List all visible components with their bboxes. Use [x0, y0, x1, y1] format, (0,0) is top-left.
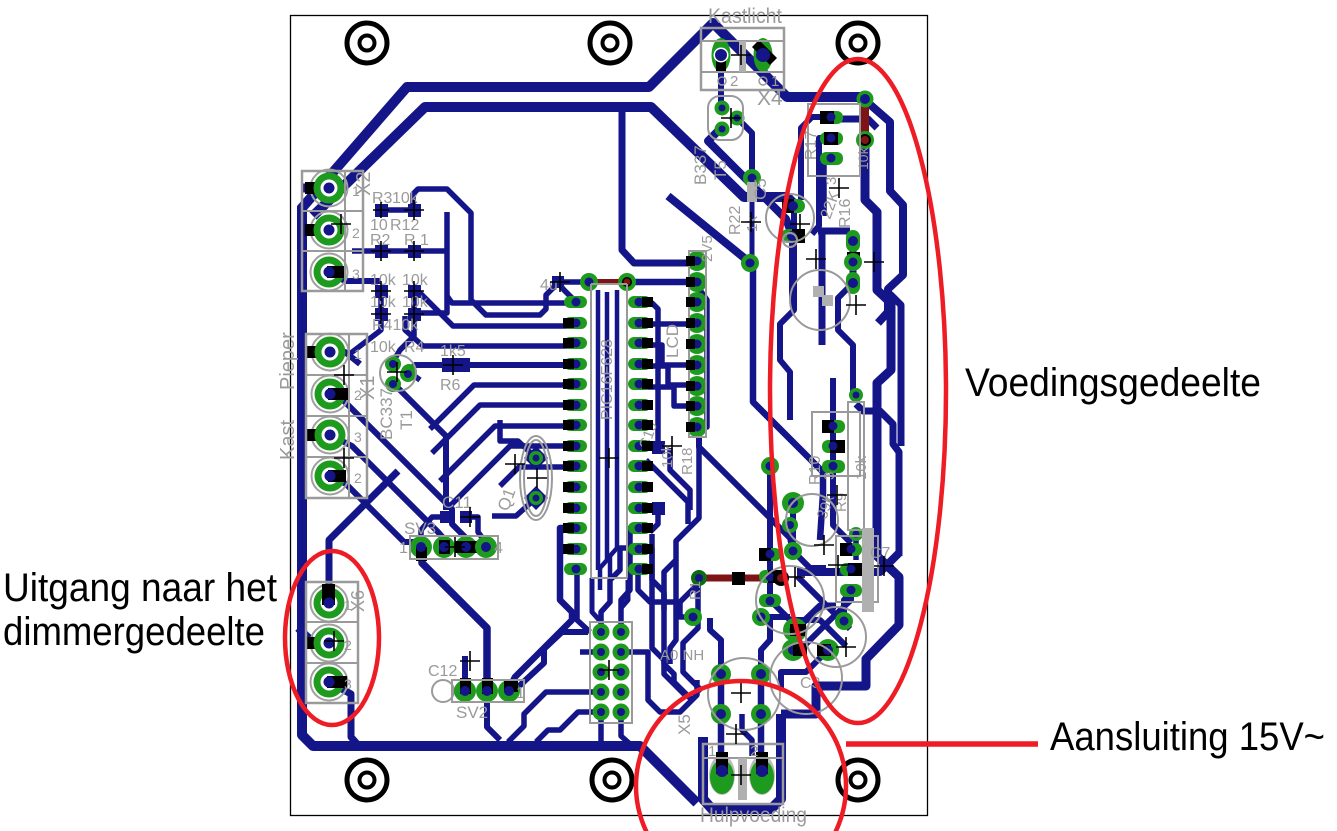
svg-text:2: 2 — [354, 470, 362, 486]
wire R19 link — [670, 448, 690, 510]
wire lower zig a — [770, 554, 846, 646]
dark red trace IC top — [592, 279, 624, 285]
svg-text:R1: R1 — [687, 581, 704, 600]
svg-text:Kast: Kast — [277, 420, 299, 460]
svg-text:10k: 10k — [853, 455, 870, 480]
svg-text:X5: X5 — [675, 714, 694, 735]
wire R-array row3-4 vertical left — [378, 291, 384, 314]
svg-text:R6: R6 — [440, 377, 461, 394]
transistor T1 outline — [380, 355, 416, 391]
wire upper block pad831c elbow — [824, 158, 831, 216]
svg-text:R18: R18 — [679, 447, 696, 475]
svg-text:LCD: LCD — [663, 324, 682, 358]
svg-text:R410k: R410k — [372, 317, 419, 334]
mounting hole bottom-middle — [592, 760, 632, 800]
board outline — [291, 16, 928, 816]
mounting hole bottom-left — [347, 760, 387, 800]
svg-text:R4: R4 — [404, 339, 425, 356]
connector X4 outline — [701, 28, 784, 90]
wire LCD pad1 long vertical — [622, 110, 690, 263]
wire IC right col to LCD y406 — [642, 387, 688, 406]
svg-text:2V5: 2V5 — [699, 235, 716, 262]
wire top outer GND run — [301, 23, 862, 209]
transistor T2 outline — [766, 194, 814, 242]
connector X6 outline — [306, 582, 358, 703]
svg-text:1: 1 — [708, 743, 716, 760]
wire bridge right vertical — [758, 676, 765, 790]
svg-text:1: 1 — [399, 540, 408, 557]
svg-text:3: 3 — [352, 266, 360, 282]
wire C11 left leg — [421, 517, 446, 545]
wire IC right col down verticals a — [638, 569, 697, 602]
wire SV1 left link — [580, 649, 601, 655]
LCD header outline — [689, 251, 706, 437]
wire SV1 col verticals — [621, 528, 638, 632]
transistor T7 outline — [786, 494, 838, 546]
svg-text:BC337: BC337 — [377, 388, 396, 440]
wire bundle vertical v3 — [670, 560, 676, 664]
wire below-IC vertical d — [592, 578, 601, 632]
wire IC interior vertical b — [600, 292, 607, 590]
wire right strand upper — [856, 404, 899, 556]
svg-text:Kastlicht: Kastlicht — [708, 5, 782, 28]
wire via750 down long — [753, 265, 823, 540]
wire lower zig b — [793, 590, 851, 650]
wire 10k resistor bottom to lower block — [853, 540, 859, 560]
wire SV2 pad4 right — [509, 632, 588, 688]
capacitor C11 pads — [440, 511, 472, 523]
wire bottom block to X5 right — [781, 650, 828, 690]
capacitor C5 pad — [743, 169, 761, 187]
wire R19 bottom — [650, 508, 658, 532]
wire 4u7 link — [559, 279, 589, 285]
svg-text:R17: R17 — [803, 131, 820, 160]
annotation ellipse Voedingsgedeelte — [770, 59, 946, 723]
wire C12 stub — [462, 656, 468, 686]
wire top inner run — [313, 107, 794, 216]
svg-text:10k: 10k — [370, 339, 397, 356]
wire IC right col to LCD y324 — [642, 321, 688, 327]
wire IC fanout pin row y428 — [500, 467, 574, 486]
svg-text:C7: C7 — [870, 545, 891, 562]
resistor R17 outline — [808, 104, 860, 176]
svg-text:Uitgang naar het: Uitgang naar het — [3, 566, 277, 610]
elco area pads — [684, 608, 853, 642]
wire bridge top left up — [710, 618, 721, 672]
wire lower cross diag — [797, 576, 850, 629]
svg-text:2: 2 — [352, 225, 360, 241]
resistor R18 pads — [652, 441, 798, 533]
wire IC interior vertical a — [596, 290, 601, 570]
wire regulator H — [797, 553, 899, 572]
connector X1 pads — [306, 334, 349, 495]
LCD header pads — [687, 251, 707, 437]
wire IC fanout pin row y324 — [405, 316, 574, 346]
resistor array R1-R4 pads — [375, 204, 421, 321]
transistor T4 pads column — [759, 548, 781, 607]
wire crystal pad2 left — [492, 498, 536, 516]
wire pad 844 up — [844, 592, 851, 621]
svg-text:Aansluiting 15V~: Aansluiting 15V~ — [1050, 715, 1325, 759]
wire H2 into rail — [833, 119, 877, 128]
svg-text:C11: C11 — [442, 493, 472, 512]
wire X5 U-shape — [703, 714, 781, 809]
wire T1 pad to bundle — [394, 384, 446, 510]
svg-text:10k: 10k — [402, 272, 429, 289]
svg-text:2: 2 — [354, 387, 362, 403]
wire bundle vertical v1 — [652, 534, 686, 696]
resistor R17 pads — [820, 111, 843, 165]
svg-text:T1: T1 — [397, 410, 416, 430]
wire right rail from via A — [866, 101, 903, 323]
wire IC pin right diag — [646, 460, 688, 524]
elco C6 outline — [770, 642, 842, 714]
wire IC pin right to R19 — [644, 303, 658, 446]
wire IC pin14 down — [577, 569, 590, 632]
wire LCD col right vertical — [697, 282, 707, 427]
wire X2 pad1 stub — [303, 184, 326, 193]
header SV2 outline — [452, 680, 524, 702]
via pad 750 263 — [741, 254, 759, 272]
wire IC interior vertical c — [610, 290, 617, 578]
resistor R10 pads — [822, 420, 845, 473]
svg-text:10k: 10k — [402, 294, 429, 311]
wire SV1 pin7 link — [508, 692, 599, 742]
wire SV2 to rail — [487, 697, 500, 740]
svg-text:10k: 10k — [659, 443, 676, 468]
svg-text:Pieper: Pieper — [277, 332, 299, 390]
svg-text:4: 4 — [494, 540, 503, 557]
wire R-array row2 link — [381, 248, 414, 254]
annotation ellipse dimmer output — [285, 551, 379, 725]
wire T5 right pad to C5 — [737, 118, 752, 178]
wire via 793-551 to hregulator — [793, 551, 826, 568]
svg-text:C5: C5 — [751, 178, 770, 200]
regulator C7 pads — [840, 543, 862, 597]
connector X1 outline — [306, 334, 367, 498]
wire X1 pad4 diag — [330, 476, 421, 546]
svg-text:1: 1 — [344, 597, 352, 613]
svg-text:X4: X4 — [757, 87, 783, 110]
wire central vertical 822 — [818, 231, 850, 345]
wire bottom rail stub to SV1 — [598, 712, 604, 742]
via pads bottom power — [782, 639, 839, 661]
via pad B dark red — [856, 131, 874, 149]
wire R4 to X1 pad1 — [347, 314, 381, 356]
wire IC left col bottom verticals — [511, 528, 577, 685]
svg-text:10k: 10k — [855, 146, 871, 170]
wire elco C6 link — [680, 600, 693, 617]
svg-text:R22: R22 — [727, 206, 744, 235]
mounting hole bottom-right — [838, 760, 878, 800]
rectifier B1 pads — [711, 664, 771, 724]
wire R10 bottom down — [833, 466, 851, 543]
elco C3 outline — [756, 566, 824, 634]
svg-text:4u: 4u — [540, 277, 558, 294]
wire X6 pad1 up — [329, 471, 398, 603]
4u7 capacitor pads — [552, 273, 636, 291]
wire upper block pad831b elbow — [812, 138, 831, 234]
capacitor C5 body — [747, 182, 757, 202]
svg-text:3: 3 — [823, 177, 840, 185]
transistor T5 outline — [708, 96, 743, 140]
IC U1 pads left column — [564, 296, 587, 575]
PADS4 — [302, 28, 878, 804]
svg-text:R 1: R 1 — [404, 232, 429, 249]
dark red top trace V — [861, 103, 869, 136]
wire X2 pad3 to R row — [329, 272, 381, 281]
svg-text:R3: R3 — [372, 190, 393, 207]
wire R-array row1 link — [381, 207, 414, 213]
wire big pad 795 diag up — [795, 606, 836, 630]
resistor R10 outline — [812, 412, 860, 476]
resistor 10k right pads — [849, 388, 863, 541]
wire pad 761 to 795 — [761, 614, 790, 620]
svg-text:Voedingsgedeelte: Voedingsgedeelte — [965, 361, 1261, 405]
wire R10 col verticals — [830, 426, 836, 466]
connector X2 outline — [302, 171, 363, 291]
wire IC bottom to SV1 pins — [601, 548, 638, 632]
wire upper block via793 down — [780, 208, 794, 420]
annotation circle Hulpvoeding — [636, 681, 846, 831]
svg-text:Hulpvoeding: Hulpvoeding — [700, 804, 807, 827]
header SV3 pads — [410, 536, 497, 561]
connector X5 pads — [709, 752, 775, 795]
wire lower block via793 link — [790, 508, 796, 551]
svg-text:1: 1 — [516, 685, 525, 702]
wire LCD col lower vertical — [664, 437, 699, 600]
svg-text:dimmergedeelte: dimmergedeelte — [3, 610, 265, 654]
wire LCD pin9 diagonal to via — [699, 430, 793, 551]
svg-text:C12: C12 — [428, 663, 457, 680]
wire SV3 pad1 down-right thick — [422, 551, 487, 688]
svg-text:A0 NH: A0 NH — [660, 647, 704, 664]
wire IC fanout pin row y303 — [414, 293, 574, 326]
wire IC right col to LCD y345 — [642, 345, 688, 365]
wire R10 top up — [830, 378, 836, 426]
svg-text:3: 3 — [821, 472, 838, 480]
wire C5 down via — [750, 180, 755, 261]
svg-text:1k: 1k — [744, 216, 761, 232]
svg-text:R16: R16 — [837, 199, 854, 228]
wire upper block via792b down — [789, 238, 795, 300]
wire via627 to LCD pad2 — [627, 279, 690, 286]
dark red trace bottom — [700, 575, 780, 582]
resistor R21 gray pads — [813, 286, 824, 297]
svg-text:T5: T5 — [711, 160, 730, 180]
elco C9 outline — [783, 233, 797, 247]
connector X4 pads — [712, 38, 778, 72]
header SV3 outline — [410, 536, 498, 559]
wire IC right col to LCD y385 — [642, 366, 688, 385]
wire 22K col to resistor 10k — [838, 283, 853, 395]
wire LCD elbow to via — [668, 196, 748, 261]
wire IC fanout pin row y366 — [432, 405, 574, 453]
regulator C7 body — [836, 536, 878, 602]
header SV1 outline — [590, 622, 632, 723]
svg-text:3: 3 — [344, 676, 352, 692]
wire via866 down from rail — [863, 660, 869, 686]
mounting hole top-middle — [590, 23, 630, 63]
elco C8 outline — [790, 270, 850, 330]
wire IC fanout pin row y408 — [448, 446, 574, 508]
wire X1 pad2 diag — [330, 394, 466, 556]
wire X1 pad3 diag — [330, 435, 445, 546]
svg-text:10k: 10k — [370, 272, 397, 289]
svg-text:1: 1 — [354, 346, 362, 362]
via pad 793 551 — [784, 542, 802, 560]
header SV1 pads — [593, 624, 630, 721]
connector X2 pads — [305, 170, 348, 291]
wire X5 inner vertical — [742, 714, 752, 756]
capacitor 22K pads column — [844, 230, 862, 294]
wire T4 top via link — [767, 470, 773, 548]
wire second rail lower strand — [890, 294, 901, 446]
wire T5 bottom diagonal to power — [708, 127, 791, 232]
wire IC top pad link — [559, 284, 576, 302]
wire IC fanout pin row y345 — [430, 385, 574, 429]
connector X5 outline — [703, 744, 783, 804]
svg-text:B337: B337 — [691, 145, 710, 185]
component origin crosses — [324, 45, 894, 785]
transistor T1 pads — [385, 356, 417, 392]
transistor T5 pads — [715, 101, 745, 137]
wire SV1 right riser a — [621, 652, 697, 712]
wire R6 inline trace — [408, 365, 574, 372]
via pad 793 503 — [761, 457, 804, 514]
svg-text:2: 2 — [750, 743, 758, 760]
mounting hole top-left — [347, 23, 387, 63]
wire X6 pad3 down to rail — [329, 682, 359, 746]
wire left rail down left edge — [302, 206, 697, 803]
pad contact nubs — [563, 256, 695, 574]
wire below-IC vertical e — [621, 580, 628, 630]
wire SV1 pin9 link — [536, 712, 599, 742]
wire dark red left end down — [683, 582, 702, 691]
wire IC right col down verticals b — [638, 548, 664, 610]
SILK3 — [285, 59, 1038, 831]
wire X4 pin2 to T5 — [718, 55, 724, 108]
svg-text:2: 2 — [730, 73, 738, 90]
elco C2 outline — [806, 607, 866, 667]
wire bridge left vertical — [718, 676, 725, 790]
wire bundle vertical v2 — [664, 594, 692, 700]
wire R-array row2 left stub — [352, 248, 381, 254]
wire X6 pad2 to rail — [298, 628, 327, 643]
svg-text:SV3: SV3 — [404, 519, 436, 538]
wire bridge top right up — [761, 620, 770, 672]
header SV2 pads — [432, 678, 520, 702]
wire R1 hook to IC — [413, 189, 557, 315]
crystal Q1 pads — [524, 446, 548, 510]
wire X2 pad2 stub — [303, 226, 326, 235]
wire X1 pad1 right — [330, 352, 360, 364]
svg-text:1: 1 — [352, 183, 360, 199]
wire IC fanout pin row y387 — [440, 426, 574, 481]
crystal Q1 outline — [520, 436, 552, 520]
wire R4b to T1 — [394, 314, 414, 360]
connector X6 pads — [306, 584, 348, 701]
resistor R6 pads — [400, 358, 470, 382]
mounting hole top-right — [838, 23, 878, 63]
wire upper block pad831a left — [801, 117, 831, 200]
svg-text:1: 1 — [771, 73, 779, 90]
wire crystal pad1 left — [500, 420, 536, 458]
IC U1 pads right column — [628, 296, 651, 575]
wire T1 base stub — [409, 372, 420, 380]
dark red bottom trace end pads — [691, 570, 789, 586]
via pad A top power — [857, 91, 874, 108]
svg-text:10k: 10k — [370, 294, 397, 311]
resistor 10k body — [848, 402, 864, 530]
svg-text:3: 3 — [354, 429, 362, 445]
IC U1 body — [590, 284, 592, 578]
wire 22K column — [850, 241, 857, 283]
via pads left upper power — [781, 199, 805, 243]
wire C11 right leg — [466, 517, 486, 543]
annotation leader line 15V — [846, 741, 1038, 747]
svg-text:PIC16F628: PIC16F628 — [599, 339, 616, 420]
wire R-array row3-4 vertical right — [411, 291, 417, 314]
wire SV1 pin10 to rail — [621, 712, 630, 744]
rectifier B1 circle — [708, 658, 780, 730]
svg-text:SV2: SV2 — [456, 703, 488, 722]
svg-text:2: 2 — [344, 637, 352, 653]
